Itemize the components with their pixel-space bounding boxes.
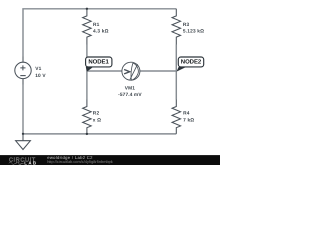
svg-text:VM1: VM1 [125, 85, 135, 91]
svg-text:http://circuitlab.com/c/4y5g8r: http://circuitlab.com/c/4y5g8r5nbmbpk [47, 159, 113, 164]
svg-text:NODE1: NODE1 [88, 59, 109, 66]
junction dot ground node [22, 133, 24, 135]
junction dot bottom of R2 branch [86, 133, 88, 135]
svg-text:R4: R4 [183, 111, 190, 117]
svg-text:R1: R1 [93, 22, 100, 28]
svg-text:x Ω: x Ω [93, 117, 101, 123]
ground [16, 134, 31, 150]
svg-text:R2: R2 [93, 111, 100, 117]
svg-text:7 kΩ: 7 kΩ [183, 117, 194, 123]
svg-text:NODE2: NODE2 [181, 59, 202, 66]
wire top rail [23, 9, 176, 57]
wire bottom rail [23, 133, 176, 135]
wire right branch between R3 and R4 [175, 45, 177, 100]
node NODE1 flag [86, 57, 112, 72]
node NODE2 flag [177, 57, 204, 72]
resistor R3 [172, 9, 181, 45]
svg-text:-577.4 mV: -577.4 mV [118, 92, 142, 98]
label R4 7 kOhm [183, 111, 194, 124]
label R2 x Ohm [93, 111, 101, 124]
wire left lower segment [22, 85, 24, 134]
svg-text:LAB: LAB [24, 161, 37, 165]
voltage source V1 [15, 57, 31, 85]
label VM1 -577.4 mV [118, 85, 142, 98]
logo waveform squiggle [9, 162, 24, 164]
svg-text:5.123 kΩ: 5.123 kΩ [183, 29, 204, 35]
resistor R1 [83, 9, 92, 45]
resistor R4 [172, 100, 181, 134]
label R1 4.3 kOhm [93, 22, 109, 35]
watermark bar [0, 155, 220, 165]
junction dot top of R1 branch [86, 8, 88, 10]
voltmeter VM1 [122, 62, 140, 80]
label R3 5.123 kOhm [183, 22, 204, 35]
svg-text:4.3 kΩ: 4.3 kΩ [93, 29, 109, 35]
svg-text:10 V: 10 V [35, 73, 46, 79]
wire mid branch between R1 and R2 [86, 45, 88, 100]
label V1 10 V [35, 66, 46, 79]
resistor R2 [83, 100, 92, 134]
wire NODE1 to voltmeter [87, 70, 122, 72]
wire voltmeter to NODE2 [140, 70, 176, 72]
svg-text:R3: R3 [183, 22, 190, 28]
svg-text:V1: V1 [35, 66, 41, 72]
